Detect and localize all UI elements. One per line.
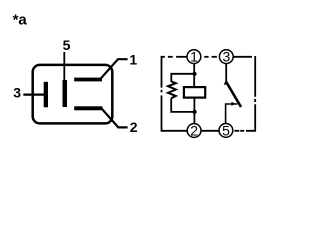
relay connector outline <box>33 65 113 124</box>
terminal slot 5 <box>63 80 68 107</box>
svg-text:2: 2 <box>130 119 138 135</box>
wire coil bottom to circle 2 <box>193 99 195 124</box>
schematic border left lower + bottom segment to circle 2 <box>162 95 188 130</box>
svg-text:5: 5 <box>222 123 230 139</box>
resistor zigzag <box>168 82 176 99</box>
svg-text:3: 3 <box>13 85 21 101</box>
contact arrow <box>232 102 236 106</box>
wire resistor bottom to junction <box>171 98 194 112</box>
terminal slot 3 <box>44 82 48 108</box>
schematic border top solid to circle 1 <box>176 56 187 58</box>
switch pivot <box>224 81 229 85</box>
svg-text:3: 3 <box>223 49 231 65</box>
wire lead 3 <box>23 93 45 95</box>
schematic border top-left segment <box>162 57 165 88</box>
schematic border left dash <box>161 90 163 92</box>
schematic border right upper segment <box>254 56 256 97</box>
schematic border top-right segment <box>234 56 253 58</box>
svg-text:5: 5 <box>63 37 71 53</box>
terminal circle 1 <box>187 50 201 64</box>
schematic border top dash c <box>212 56 217 58</box>
svg-text:1: 1 <box>129 52 137 68</box>
terminal circle 2 <box>187 124 201 138</box>
wire circle1 to coil <box>193 64 195 87</box>
schematic border top dash a <box>168 56 173 58</box>
terminal slot 1 <box>74 78 102 82</box>
wire lead 1 <box>101 59 128 78</box>
schematic border bottom dash a <box>240 130 244 132</box>
svg-text:2: 2 <box>190 123 198 139</box>
schematic border top dash b <box>204 56 208 58</box>
terminal circle 5 <box>219 123 233 137</box>
schematic border right lower + bottom corner segment <box>246 104 255 131</box>
schematic border right dash <box>254 99 256 102</box>
terminal slot 2 <box>74 106 102 110</box>
svg-text:1: 1 <box>190 49 198 65</box>
svg-text:*a: *a <box>13 12 28 29</box>
schematic border bottom between circle 5 and circle 2 <box>202 130 219 132</box>
terminal circle 3 <box>219 50 233 64</box>
coil box <box>184 87 205 98</box>
junction dot bottom <box>193 110 197 114</box>
wire circle 5 to contact <box>226 104 238 123</box>
wire lead 5 <box>63 52 65 82</box>
wire circle 3 down <box>225 64 227 81</box>
switch blade <box>226 82 241 108</box>
junction dot top <box>192 72 196 76</box>
wire lead 2 <box>101 108 128 128</box>
schematic border bottom dash b <box>234 130 239 132</box>
wire junction to resistor top <box>171 74 194 82</box>
